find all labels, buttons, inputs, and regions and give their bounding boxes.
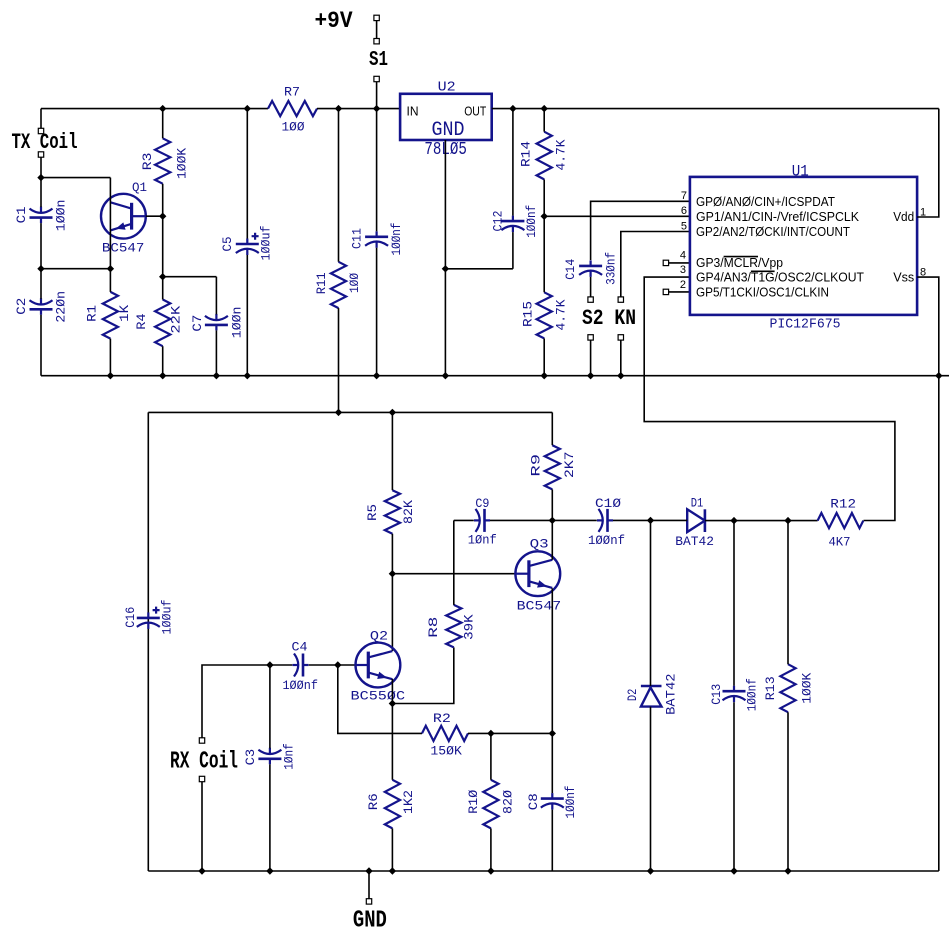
wire R14 top lead — [543, 109, 545, 132]
svg-text:2K7: 2K7 — [562, 451, 577, 478]
svg-text:4K7: 4K7 — [828, 535, 850, 550]
wire S1 upper — [376, 21, 378, 39]
resistor R7 — [268, 101, 317, 116]
wire TX node to Q1 collector — [41, 177, 110, 179]
svg-text:R5: R5 — [365, 504, 380, 521]
wire C12 to U2 GND wire — [445, 268, 513, 270]
wire R10 top lead — [490, 733, 492, 779]
junction R1/ground rail — [107, 372, 114, 379]
junction C11/ground rail — [373, 372, 380, 379]
svg-text:C9: C9 — [475, 496, 489, 511]
junction C10/D1/D2 node — [647, 517, 654, 524]
resistor R6 — [385, 780, 400, 829]
wire ground rail to bottom rail (right side) — [938, 376, 940, 871]
wire C9 left lead — [454, 519, 474, 521]
svg-text:1ØØuf: 1ØØuf — [160, 600, 175, 635]
wire rail2 left down — [147, 412, 149, 871]
junction R10/bottom rail — [487, 867, 494, 874]
port S2 lower right — [618, 335, 623, 340]
svg-text:+9V: +9V — [315, 8, 353, 34]
IC U1 box — [690, 177, 917, 315]
wire C11 bottom lead — [376, 248, 378, 376]
port pin4 MCLR — [663, 260, 668, 265]
svg-text:C3: C3 — [243, 749, 258, 766]
wire C7 top lead — [215, 277, 217, 315]
svg-text:R13: R13 — [763, 676, 778, 700]
port pin2 GP5 — [663, 289, 668, 294]
svg-text:R11: R11 — [314, 272, 329, 294]
wire R14 bottom lead — [543, 179, 545, 216]
svg-text:C16: C16 — [123, 607, 138, 628]
overline MCLR — [724, 256, 758, 258]
wire pin4 stub — [669, 262, 690, 264]
wire R15 bottom lead — [543, 338, 545, 375]
svg-text:1K: 1K — [117, 305, 132, 322]
wire Q1 base to R3 node — [146, 215, 163, 217]
svg-text:C1: C1 — [14, 206, 29, 223]
junction R13 top — [784, 517, 791, 524]
wire C4 to Q2 base node — [309, 664, 338, 666]
wire R1 bottom lead — [109, 339, 111, 376]
junction C7/ground rail — [213, 372, 220, 379]
capacitor C13 — [723, 690, 746, 693]
diode D2 — [641, 688, 662, 707]
svg-text:PIC12F675: PIC12F675 — [770, 317, 841, 333]
junction R4/ground rail — [159, 372, 166, 379]
capacitor C16 — [137, 617, 160, 620]
wire R10 bottom lead — [490, 828, 492, 871]
wire R4 bottom lead — [162, 346, 164, 376]
wire RX coil branch — [202, 665, 270, 738]
wire R13 top lead — [787, 521, 789, 665]
junction R14/rail — [541, 105, 548, 112]
svg-text:D1: D1 — [691, 496, 704, 511]
capacitor C1 — [30, 216, 53, 219]
resistor R4 — [155, 300, 170, 347]
wire C14 bottom lead — [590, 277, 592, 297]
wire R6 top lead — [391, 704, 393, 780]
svg-text:C12: C12 — [490, 211, 505, 232]
wire R13 bottom lead — [787, 712, 789, 871]
junction S2 right/ground — [617, 372, 624, 379]
svg-text:Vss: Vss — [893, 269, 914, 284]
svg-text:C5: C5 — [220, 236, 235, 251]
wire R3 bottom lead — [162, 184, 164, 217]
junction D1/C13 node — [730, 517, 737, 524]
svg-text:R4: R4 — [134, 313, 149, 330]
wire C7 bottom lead — [215, 330, 217, 375]
wire rail2 right down to R9 — [551, 412, 553, 445]
capacitor C14 — [579, 265, 602, 268]
wire Q2 emitter down — [391, 679, 393, 704]
svg-text:C2: C2 — [14, 298, 29, 315]
svg-text:GP4/AN3/T1G/OSC2/CLKOUT: GP4/AN3/T1G/OSC2/CLKOUT — [696, 269, 864, 284]
svg-text:4.7K: 4.7K — [554, 139, 569, 170]
wire S2 left to ground rail — [590, 340, 592, 376]
junction C3/bottom rail — [266, 867, 273, 874]
wire C9 left down to R8 — [453, 520, 455, 605]
wire R1 top lead — [109, 269, 111, 292]
svg-text:39K: 39K — [462, 614, 477, 640]
svg-text:BC547: BC547 — [102, 241, 145, 256]
wire C3 top lead — [269, 665, 271, 748]
svg-text:R7: R7 — [284, 85, 300, 100]
svg-text:1ØØnf: 1ØØnf — [563, 786, 578, 819]
wire pin6 node to U1 GP1 — [544, 215, 690, 217]
junction R5/rail2 — [389, 409, 396, 416]
wire U1 pin7 to C14 — [591, 201, 690, 260]
svg-text:C13: C13 — [709, 684, 724, 705]
svg-text:5: 5 — [681, 220, 687, 232]
svg-text:1ØØnf: 1ØØnf — [745, 678, 760, 711]
junction C12/rail — [509, 105, 516, 112]
junction R11/rail2 — [335, 409, 342, 416]
svg-text:U1: U1 — [792, 162, 809, 180]
wire C1 top lead — [40, 178, 42, 208]
wire D1 cathode lead — [705, 520, 734, 522]
wire RX coil bottom to rail — [201, 782, 203, 871]
svg-text:GP2/AN2/TØCKI/INT/COUNT: GP2/AN2/TØCKI/INT/COUNT — [696, 224, 850, 239]
wire D2 cathode up to D1 node — [650, 521, 652, 686]
resistor R8 — [446, 605, 461, 648]
wire C12 bottom lead — [512, 232, 514, 269]
resistor R12 — [818, 513, 864, 528]
svg-text:C8: C8 — [526, 793, 541, 810]
transistor Q2 — [356, 643, 401, 688]
junction RX/bottom rail — [198, 867, 205, 874]
wire C2 node to Q1 emitter node — [41, 268, 110, 270]
junction Vss/ground rail — [935, 372, 942, 379]
svg-text:1ØØK: 1ØØK — [799, 673, 814, 704]
port square +9V — [374, 15, 379, 20]
svg-text:U2: U2 — [438, 79, 456, 95]
junction S1/C11 at rail — [373, 105, 380, 112]
port S1 bottom terminal — [374, 76, 379, 81]
wire C8 top lead — [551, 733, 553, 793]
resistor R1 — [103, 292, 118, 339]
resistor R9 — [545, 445, 560, 489]
svg-text:C1Ø: C1Ø — [595, 496, 621, 511]
svg-text:6: 6 — [681, 205, 687, 217]
wire R15 top lead — [543, 216, 545, 292]
wire C4 left lead — [270, 664, 292, 666]
svg-text:1ØØnf: 1ØØnf — [588, 533, 625, 548]
port RX coil top — [199, 738, 204, 743]
svg-text:1ØØnf: 1ØØnf — [389, 223, 404, 256]
svg-text:2: 2 — [680, 279, 686, 291]
resistor R3 — [155, 138, 170, 183]
junction Q2 emitter/R6/R8 — [389, 700, 396, 707]
wire pin2 stub — [669, 291, 690, 293]
svg-text:3: 3 — [680, 264, 686, 276]
svg-text:Vdd: Vdd — [893, 209, 914, 224]
svg-text:R9: R9 — [529, 454, 544, 477]
svg-text:RX Coil: RX Coil — [170, 749, 238, 776]
wire TX coil bottom down — [40, 157, 42, 177]
svg-text:GPØ/ANØ/CIN+/ICSPDAT: GPØ/ANØ/CIN+/ICSPDAT — [696, 194, 835, 209]
junction R3/Q1 base — [159, 213, 166, 220]
svg-text:1K2: 1K2 — [401, 790, 416, 814]
capacitor C2 — [30, 308, 53, 311]
svg-text:82K: 82K — [401, 500, 416, 524]
svg-text:BAT42: BAT42 — [675, 534, 714, 549]
svg-text:1Ønf: 1Ønf — [468, 533, 497, 548]
wire R5 node to Q2 collector — [391, 574, 393, 651]
svg-text:GND: GND — [432, 119, 465, 142]
junction R14/R15/pin6 node — [541, 213, 548, 220]
capacitor C9 — [483, 509, 486, 532]
wire U1 pin5 to S2 — [621, 232, 690, 297]
junction U2 GND/C12 — [442, 265, 449, 272]
junction R11/rail — [335, 105, 342, 112]
svg-text:S2 KN: S2 KN — [582, 306, 636, 331]
svg-text:Q2: Q2 — [370, 629, 388, 644]
svg-text:TX Coil: TX Coil — [12, 130, 78, 155]
wire S2 right to ground rail — [620, 340, 622, 376]
wire C5 top lead — [246, 109, 248, 239]
svg-text:BAT42: BAT42 — [664, 673, 679, 715]
svg-text:OUT: OUT — [464, 104, 486, 119]
svg-text:R12: R12 — [830, 497, 856, 512]
wire R3 node down to R4 — [162, 216, 164, 277]
wire Q3 collector up — [551, 520, 553, 559]
svg-text:R15: R15 — [521, 301, 536, 327]
capacitor C7 — [205, 324, 228, 327]
junction Q2 base node — [334, 661, 341, 668]
junction R9/C9/C10 node — [549, 517, 556, 524]
wire R3 top lead — [162, 109, 164, 139]
port pin5 to S2 — [618, 297, 623, 302]
svg-text:S1: S1 — [369, 49, 388, 72]
overline T1G — [751, 270, 775, 272]
wire C3 bottom lead — [269, 764, 271, 871]
resistor R10 — [483, 780, 498, 829]
svg-text:R3: R3 — [140, 153, 155, 171]
junction Q1 emitter/R1 — [107, 265, 114, 272]
wire D2 anode to bottom rail — [650, 707, 652, 871]
svg-text:R6: R6 — [366, 793, 381, 810]
wire D1 node to R13 — [734, 520, 818, 522]
svg-text:1Ønf: 1Ønf — [282, 743, 297, 770]
wire C8 bottom lead — [551, 810, 553, 871]
regulator U2 box — [400, 94, 492, 140]
svg-text:IN: IN — [407, 104, 419, 119]
wire rail to TX coil top — [40, 109, 42, 129]
rail section2 top — [148, 411, 552, 413]
capacitor C11 — [365, 236, 388, 239]
wire R11 bottom lead crossing ground rail — [338, 308, 340, 412]
junction S2 left/ground — [587, 372, 594, 379]
wire C9 right lead — [490, 519, 552, 521]
wire Q3 base row — [392, 573, 515, 575]
wire U2 GND down — [444, 140, 446, 376]
wire R5 top lead — [391, 412, 393, 490]
junction R3/rail — [159, 105, 166, 112]
svg-text:D2: D2 — [625, 689, 640, 702]
wire R6 bottom lead — [391, 828, 393, 871]
junction R4/C7 node — [159, 273, 166, 280]
resistor R14 — [537, 132, 552, 180]
resistor R13 — [780, 664, 795, 712]
svg-text:7: 7 — [681, 190, 687, 202]
wire C2 top lead — [40, 269, 42, 299]
junction R2/R10 — [487, 730, 494, 737]
svg-text:22Øn: 22Øn — [53, 291, 68, 323]
port C14 to S2 — [588, 297, 593, 302]
svg-text:4: 4 — [680, 250, 686, 262]
svg-text:R14: R14 — [519, 141, 534, 167]
junction GND stub — [365, 867, 372, 874]
resistor R5 — [385, 490, 400, 534]
junction R6/bottom rail — [389, 867, 396, 874]
wire R4 top lead — [162, 277, 164, 300]
wire Q2 base node down to R2 — [338, 665, 422, 733]
bottom rail — [148, 870, 939, 872]
wire Q3 emitter down — [551, 588, 553, 733]
svg-text:33Ønf: 33Ønf — [603, 252, 618, 285]
svg-text:C14: C14 — [563, 259, 578, 280]
port RX coil bottom — [199, 776, 204, 781]
wire Q2 base wire — [338, 664, 356, 666]
junction R5/Q3 base — [389, 570, 396, 577]
wire S1 to rail — [376, 82, 378, 109]
svg-text:R1: R1 — [84, 305, 99, 322]
wire U1 pin3 to R12 — [644, 277, 895, 520]
wire R2 right to R10 — [468, 732, 552, 734]
capacitor C12 — [501, 220, 524, 223]
wire Q1 collector-emitter vertical — [109, 178, 111, 269]
svg-text:GND: GND — [353, 908, 387, 935]
wire U2 OUT to right rail — [492, 108, 939, 110]
wire GND stub — [368, 871, 370, 899]
junction C5/ground rail — [244, 372, 251, 379]
svg-text:R2: R2 — [433, 711, 451, 726]
resistor R2 — [422, 726, 468, 741]
resistor R15 — [537, 292, 552, 338]
port S2 lower left — [588, 335, 593, 340]
wire C5 bottom lead — [246, 255, 248, 376]
svg-text:C11: C11 — [349, 228, 364, 249]
svg-text:R1Ø: R1Ø — [466, 790, 481, 814]
svg-text:1ØØuf: 1ØØuf — [259, 226, 274, 261]
ground rail (top section) — [41, 375, 949, 377]
junction Q3 emitter/C8/R2 — [549, 730, 556, 737]
svg-text:BC55ØC: BC55ØC — [351, 689, 406, 704]
port GND — [366, 899, 371, 904]
junction C1/C2 node — [37, 265, 44, 272]
port TX coil top — [38, 128, 43, 133]
capacitor C10 — [606, 509, 609, 532]
transistor Q1 — [101, 194, 146, 239]
wire R4 node to C7 — [163, 276, 217, 278]
wire +9V rail top left segment — [41, 108, 268, 110]
svg-text:C7: C7 — [190, 315, 205, 332]
wire C1 bottom lead — [40, 223, 42, 269]
svg-text:Q1: Q1 — [132, 180, 147, 195]
svg-text:Q3: Q3 — [530, 537, 549, 552]
svg-text:C4: C4 — [292, 640, 308, 655]
svg-text:15ØK: 15ØK — [430, 744, 462, 759]
svg-text:1ØØK: 1ØØK — [174, 148, 189, 179]
wire D1 anode lead — [651, 519, 688, 521]
wire R9 bottom lead — [551, 489, 553, 520]
junction C3/C4 node — [266, 661, 273, 668]
junction C13/bottom rail — [730, 867, 737, 874]
junction R13/bottom rail — [784, 867, 791, 874]
capacitor C5 — [236, 243, 259, 246]
wire C12 top lead — [512, 109, 514, 216]
wire C10 right lead — [613, 519, 651, 521]
svg-text:BC547: BC547 — [517, 599, 562, 614]
wire C13 top lead — [733, 521, 735, 686]
wire R8 bottom row — [392, 647, 453, 703]
svg-text:R8: R8 — [426, 617, 441, 638]
wire C11 top lead — [376, 109, 378, 232]
junction U2 GND/ground rail — [442, 372, 449, 379]
svg-text:GP1/AN1/CIN-/Vref/ICSPCLK: GP1/AN1/CIN-/Vref/ICSPCLK — [696, 209, 859, 224]
junction D2/bottom rail — [647, 867, 654, 874]
svg-text:1ØØn: 1ØØn — [53, 200, 68, 232]
svg-text:1ØØnf: 1ØØnf — [524, 205, 539, 238]
svg-text:1ØØ: 1ØØ — [347, 273, 362, 293]
svg-text:GP5/T1CKI/OSC1/CLKIN: GP5/T1CKI/OSC1/CLKIN — [696, 284, 829, 299]
capacitor C4 — [302, 654, 305, 677]
junction R15/ground rail — [541, 372, 548, 379]
transistor Q3 — [515, 551, 560, 596]
svg-text:1ØØnf: 1ØØnf — [282, 678, 318, 693]
wire R5 bottom lead — [391, 534, 393, 574]
svg-text:4.7K: 4.7K — [554, 299, 569, 330]
port S1 top terminal — [374, 39, 379, 44]
svg-text:1ØØ: 1ØØ — [282, 120, 305, 135]
svg-text:1ØØn: 1ØØn — [229, 307, 244, 339]
capacitor C8 — [541, 797, 564, 800]
wire C2 bottom lead — [40, 315, 42, 376]
svg-text:82Ø: 82Ø — [500, 790, 515, 814]
junction C5/rail — [244, 105, 251, 112]
wire rail R7 to U2 IN — [317, 108, 400, 110]
port TX coil bottom — [38, 152, 43, 157]
capacitor C3 — [258, 757, 281, 760]
wire R11 top lead — [338, 109, 340, 262]
wire Vdd pin1 to rail — [917, 109, 939, 217]
resistor R11 — [331, 262, 346, 308]
svg-text:22K: 22K — [169, 306, 184, 334]
junction TX/C1 node — [37, 174, 44, 181]
wire C10 left lead — [552, 519, 597, 521]
wire Vss pin8 to ground rail — [917, 277, 939, 376]
diode D1 — [687, 509, 705, 532]
wire C13 bottom lead — [733, 702, 735, 871]
